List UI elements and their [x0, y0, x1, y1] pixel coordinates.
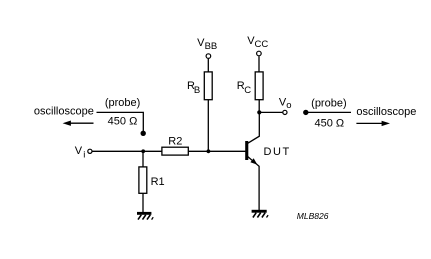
junction: collector node — [257, 110, 261, 114]
right probe tip dot — [303, 110, 308, 115]
svg-text:DUT: DUT — [264, 146, 291, 158]
figure reference MLB826 — [297, 211, 329, 221]
svg-text:450 Ω: 450 Ω — [108, 116, 138, 128]
svg-text:(probe): (probe) — [105, 97, 140, 109]
junction: base node (R2/RB/DUT) — [207, 149, 211, 153]
resistor RB — [187, 72, 212, 100]
svg-text:CC: CC — [255, 39, 269, 50]
svg-text:MLB826: MLB826 — [297, 211, 329, 221]
left probe tip dot — [141, 131, 146, 136]
resistor RC — [237, 72, 263, 100]
oscilloscope label left — [34, 106, 94, 118]
node VBB supply terminal — [197, 37, 217, 59]
svg-text:oscilloscope: oscilloscope — [356, 106, 416, 118]
svg-text:C: C — [244, 85, 251, 96]
resistor R2 — [162, 136, 188, 156]
arrow to oscilloscope (right) — [356, 121, 390, 126]
ground (DUT emitter) — [252, 210, 269, 218]
node VCC supply terminal — [247, 35, 268, 56]
wire: collector node to Vo — [259, 111, 282, 113]
probe impedance value 450 ohm (left) — [108, 116, 138, 128]
arrow to oscilloscope (left) — [63, 121, 94, 126]
wire: right probe line — [306, 111, 351, 113]
wire: base node up to RB — [207, 100, 209, 152]
wire: junction to R1 — [142, 151, 144, 167]
junction: Vi/R1 node — [141, 149, 145, 153]
wire: R1 to ground — [142, 193, 144, 212]
svg-text:(probe): (probe) — [311, 98, 346, 110]
transistor DUT — [245, 112, 291, 210]
probe label (left) — [105, 97, 140, 109]
wire: RB to VBB terminal — [207, 59, 209, 72]
svg-text:R2: R2 — [168, 136, 182, 148]
svg-text:V: V — [75, 145, 83, 157]
oscilloscope label right — [356, 106, 416, 118]
svg-text:R1: R1 — [151, 176, 165, 188]
node Vi input terminal — [75, 145, 92, 160]
wire: Vi to R2 — [92, 150, 161, 152]
node Vo output terminal — [279, 96, 292, 114]
svg-text:oscilloscope: oscilloscope — [34, 106, 94, 118]
wire: RC to VCC terminal — [258, 56, 260, 72]
probe impedance value 450 ohm (right) — [314, 117, 344, 129]
wire: collector node down/up — [258, 100, 260, 113]
svg-text:BB: BB — [205, 41, 218, 52]
wire: left probe line — [97, 112, 144, 131]
wire: R2 to base node — [188, 150, 246, 152]
resistor R1 — [139, 167, 165, 193]
svg-text:B: B — [194, 85, 200, 96]
svg-text:450 Ω: 450 Ω — [314, 117, 344, 129]
svg-text:i: i — [83, 149, 85, 160]
probe label (right) — [311, 98, 346, 110]
svg-text:o: o — [286, 100, 291, 111]
ground (R1) — [137, 212, 153, 220]
